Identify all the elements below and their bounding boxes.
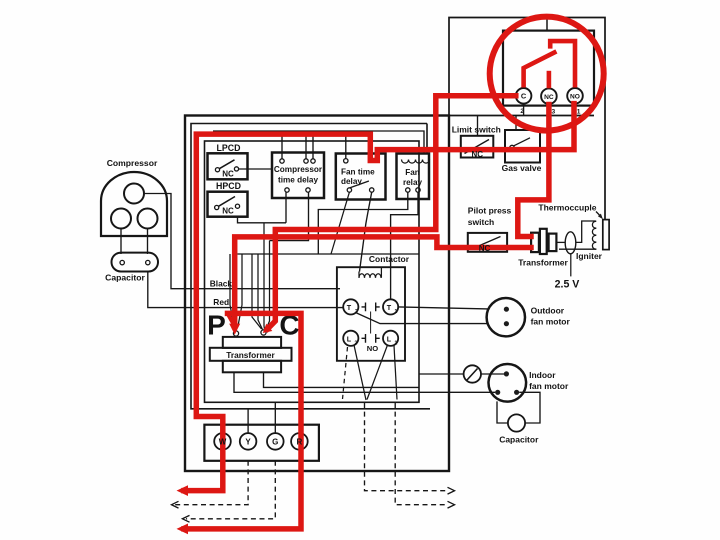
wire red from capacitor to contactor T2 [148, 271, 343, 307]
arrow G left [182, 515, 189, 522]
wire compressor right down [147, 229, 149, 255]
thermocouple rod [603, 220, 609, 250]
transformer top lamination [223, 337, 281, 348]
control box inner rectangle B [191, 124, 430, 409]
wire bus to fan relay top [213, 131, 424, 154]
wire compressor left to capacitor [120, 229, 122, 255]
svg-text:Compressor: Compressor [107, 158, 158, 168]
svg-text:Transformer: Transformer [518, 258, 568, 268]
wire fan relay left pin to contactor coil [318, 192, 408, 254]
fan relay coil [402, 160, 430, 164]
svg-text:T: T [347, 303, 352, 312]
transformer middle lamination [210, 348, 292, 361]
svg-text:C: C [521, 92, 527, 101]
wire fan-in 3 to transformer C terminal [263, 223, 266, 329]
dashed wire to right arrow 2 [395, 403, 447, 505]
svg-text:NC: NC [479, 244, 491, 253]
svg-text:1: 1 [395, 341, 398, 347]
transformer C terminal [261, 330, 266, 335]
LPCD switch arm [219, 160, 234, 169]
HPCD switch box [208, 192, 248, 217]
red connector into P arrow [228, 313, 234, 324]
red arrow at transformer C terminal [263, 324, 273, 333]
contactor NO contact bars bottom row [362, 334, 380, 343]
relay module bottom edge [449, 115, 594, 117]
svg-text:NC: NC [472, 150, 484, 159]
svg-text:Fan: Fan [405, 168, 420, 177]
wire transformer to igniter [556, 241, 565, 243]
wire indoor fan capacitor loop left [497, 401, 508, 423]
fan time delay top pin [344, 159, 348, 163]
wire fan-in to transformer P terminal right [238, 254, 242, 326]
red highlight circle around relay [490, 17, 604, 131]
wire fan-in to transformer P terminal left [230, 254, 234, 326]
control box outer rectangle A [185, 116, 449, 472]
fan time delay switch arm [350, 181, 369, 188]
terminal G [267, 433, 284, 450]
svg-text:Gas valve: Gas valve [502, 163, 542, 173]
fan time delay box [336, 154, 386, 200]
dashed wire G to thermostat [186, 461, 275, 519]
wire G up [274, 402, 276, 433]
wire transformer bottom right [264, 372, 420, 387]
limit switch box [461, 136, 494, 158]
gas valve box [505, 130, 540, 163]
contactor terminal L2 [343, 331, 358, 346]
dashed wire Y to thermostat [175, 461, 248, 505]
capacitor terminal right [146, 260, 150, 264]
wire switch to indoor fan [481, 373, 504, 375]
indoor fan motor circle [489, 364, 527, 402]
svg-text:Y: Y [245, 437, 251, 446]
svg-text:P: P [207, 310, 226, 341]
control box inner rectangle C [205, 141, 420, 402]
wire fan-in 4 to transformer C terminal [266, 241, 270, 330]
arrow right 1 [448, 487, 455, 494]
pilot press switch arm [472, 237, 501, 250]
svg-text:L: L [387, 335, 392, 344]
wire fan-in 2 to transformer C terminal [258, 254, 263, 330]
wire black from compressor to contactor [144, 194, 340, 289]
transformer P terminal [233, 331, 238, 336]
svg-text:HPCD: HPCD [216, 181, 241, 191]
contactor terminal L1 [383, 331, 398, 346]
svg-text:NC: NC [544, 94, 554, 101]
svg-text:1: 1 [577, 109, 581, 116]
igniter ellipse [565, 232, 576, 254]
LPCD switch box [208, 153, 248, 179]
svg-text:Contactor: Contactor [369, 254, 410, 264]
svg-text:Black: Black [210, 279, 233, 289]
red arrow R left [177, 524, 189, 535]
igniter coil [592, 221, 596, 249]
compressor time delay top pins [280, 159, 284, 163]
red wire transformer P to pilot switch circuit [235, 237, 531, 325]
HPCD switch contact [235, 204, 239, 208]
outdoor fan motor circle [487, 298, 525, 336]
fan time delay bottom pins [347, 188, 351, 192]
svg-text:fan motor: fan motor [531, 317, 571, 327]
HPCD switch arm [219, 197, 236, 207]
contactor coil right lead to T1 [359, 267, 381, 278]
pilot press switch box [468, 233, 507, 252]
wire fan relay right pin to contactor coil right [391, 192, 418, 299]
contactor NO contact bars top row [362, 303, 380, 312]
gas valve contact [510, 145, 514, 149]
svg-text:NC: NC [222, 207, 234, 216]
gas valve arm [514, 138, 530, 146]
ignition transformer core bar [540, 229, 547, 254]
svg-text:Capacitor: Capacitor [105, 273, 145, 283]
contactor linkage [370, 312, 372, 334]
svg-text:W: W [219, 437, 227, 446]
red wire P junction to R terminal to thermostat [184, 313, 301, 529]
ignition transformer right bracket [549, 234, 557, 252]
compressor time delay bottom pins [285, 188, 289, 192]
red relay switch arm from C [524, 51, 557, 87]
wire T2 diagonal to outdoor fan [356, 313, 488, 324]
transformer bottom lamination [223, 361, 281, 373]
arrow Y left [172, 501, 179, 508]
fan relay box [397, 154, 430, 200]
wire L2 leg solid [354, 345, 366, 400]
svg-text:Limit switch: Limit switch [452, 125, 501, 135]
svg-text:Igniter: Igniter [576, 251, 603, 261]
fan relay bottom pins [406, 188, 410, 192]
red arrow at transformer P terminal [229, 324, 240, 335]
relay terminal NO [567, 88, 583, 104]
svg-text:1: 1 [395, 309, 398, 315]
svg-text:2: 2 [355, 341, 358, 347]
svg-text:switch: switch [468, 217, 494, 227]
red relay NO loop [550, 41, 575, 87]
contactor box [337, 267, 405, 361]
red relay NC stub [547, 71, 552, 89]
svg-text:L: L [347, 335, 352, 344]
wire limit switch up [477, 116, 479, 136]
svg-text:Outdoor: Outdoor [531, 306, 565, 316]
furnace section box top edge [449, 18, 605, 220]
svg-text:time delay: time delay [278, 176, 318, 185]
wire horizontal bus [238, 253, 420, 255]
terminal W [214, 433, 231, 450]
contactor coil [359, 274, 381, 278]
LPCD switch contact [234, 167, 238, 171]
wire T1 to outdoor fan [398, 307, 488, 309]
relay terminal NC [541, 88, 557, 104]
wire 2.5V [570, 254, 572, 277]
red arrow W left [177, 485, 189, 496]
wires compressor time delay bottom pins down [285, 192, 287, 223]
indoor fan inline switch slash [467, 369, 478, 381]
wire igniter loop top [576, 221, 596, 242]
svg-text:Capacitor: Capacitor [499, 435, 539, 445]
dashed wire to right arrow 1 [365, 403, 448, 491]
indoor fan capacitor circle [508, 414, 525, 431]
svg-text:NO: NO [570, 94, 580, 101]
svg-text:Indoor: Indoor [529, 370, 556, 380]
capacitor body [112, 253, 159, 272]
svg-text:NC: NC [222, 170, 234, 179]
svg-text:G: G [272, 437, 278, 446]
svg-text:LPCD: LPCD [217, 143, 241, 153]
compressor body [101, 172, 167, 236]
wire Y up [247, 409, 249, 433]
wire L2 leg dashed [343, 347, 348, 399]
svg-text:2.5 V: 2.5 V [555, 279, 580, 291]
indoor fan inline switch circle [464, 365, 481, 382]
outdoor fan motor terminals [504, 307, 509, 312]
wire L1 leg right [394, 346, 397, 400]
ignition transformer left bracket [531, 233, 539, 252]
red wire relay NC to ignition transformer [518, 105, 549, 237]
svg-text:Red: Red [213, 297, 229, 307]
red wire NO to limit circuit to W terminal [184, 104, 574, 491]
HPCD switch pivot [215, 205, 219, 209]
wire to indoor fan switch [419, 373, 464, 375]
relay box [503, 31, 594, 106]
wire HPCD down right [238, 217, 287, 223]
wire fan time delay right pin down [360, 192, 372, 271]
compressor terminal right [138, 209, 158, 229]
compressor time delay box [272, 153, 324, 199]
compressor terminal left [111, 209, 131, 229]
LPCD switch pivot [215, 168, 219, 172]
contactor terminal T2 [343, 299, 358, 314]
wire fan-in 1 to transformer C terminal [252, 254, 262, 329]
wire fan time delay left pin down [331, 192, 349, 254]
wire L1 leg left [367, 345, 388, 400]
contactor terminal T1 [383, 299, 398, 314]
svg-text:Pilot press: Pilot press [468, 206, 512, 216]
wire transformer bottom to indoor fan [234, 372, 495, 392]
svg-text:Compressor: Compressor [274, 165, 323, 174]
svg-text:Transformer: Transformer [226, 350, 275, 360]
terminal R [291, 433, 308, 450]
terminal Y [240, 433, 257, 450]
svg-text:NO: NO [367, 344, 378, 353]
relay terminal C [516, 88, 532, 104]
svg-text:3: 3 [551, 108, 555, 115]
wires compressor time delay top pins up [281, 131, 283, 159]
wire igniter loop bottom [559, 248, 596, 250]
svg-text:Thermoccuple: Thermoccuple [538, 203, 596, 213]
svg-text:R: R [297, 437, 303, 446]
compressor terminal top [124, 184, 144, 204]
svg-text:fan motor: fan motor [529, 381, 569, 391]
arrow right 2 [448, 501, 455, 508]
wire gas valve up [515, 116, 517, 131]
thermostat terminal strip box [204, 425, 319, 461]
limit switch arm [465, 140, 490, 154]
wire LPCD to compressor time delay [239, 168, 272, 170]
svg-text:relay: relay [403, 178, 423, 187]
relay box connector tick [546, 18, 548, 31]
wire fan time delay top pin up [345, 135, 347, 159]
wire indoor fan capacitor loop right [519, 392, 540, 423]
indoor fan motor terminals [504, 371, 509, 376]
svg-text:Fan time: Fan time [341, 168, 375, 177]
thermocouple arrow [596, 212, 602, 218]
svg-text:T: T [387, 303, 392, 312]
capacitor terminal left [120, 260, 124, 264]
wire under relay C [523, 104, 525, 116]
red wire relay C to transformer C terminal [268, 96, 516, 329]
